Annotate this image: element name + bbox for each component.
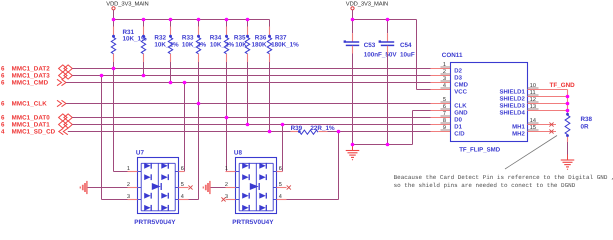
- resistor R36 180K pull-up: [245, 20, 267, 63]
- wire net MMC1_SD_CD: [68, 131, 291, 133]
- power symbol VDD_3V3_MAIN (left): [106, 1, 148, 20]
- svg-text:6: 6: [279, 166, 282, 172]
- junction dots on VDD bus (middle): [351, 18, 390, 22]
- svg-text:U7: U7: [136, 150, 145, 157]
- svg-text:SHIELD3: SHIELD3: [499, 102, 525, 109]
- wire SD_CD riser to U8 pin 4: [287, 132, 339, 200]
- ground symbol at caps: [346, 145, 360, 160]
- svg-text:D3: D3: [454, 74, 462, 81]
- CON11 left pin names: [454, 67, 468, 137]
- svg-text:10K_2%: 10K_2%: [182, 41, 207, 48]
- svg-text:1: 1: [225, 166, 228, 172]
- svg-text:5: 5: [181, 182, 184, 188]
- no-connect X at U7 pin 5: [188, 185, 192, 189]
- svg-text:1: 1: [127, 166, 130, 172]
- wire pull-up bus VDD_3V3_MAIN: [114, 19, 270, 21]
- wire DAT3 riser to U7 pin 3: [102, 76, 128, 200]
- svg-text:so the shield pins are needed: so the shield pins are needed to conect …: [394, 182, 576, 189]
- svg-text:SHIELD2: SHIELD2: [499, 95, 525, 102]
- wire net MMC1_CMD: [66, 82, 451, 84]
- wire R36 to net: [247, 62, 249, 125]
- wire CMD riser to U7 pin 6: [184, 83, 186, 172]
- wire R38 to ground: [567, 142, 569, 159]
- wire SHIELD pins to TF_GND: [528, 90, 568, 114]
- svg-text:180K_1%: 180K_1%: [271, 41, 299, 48]
- svg-text:GND: GND: [454, 109, 468, 116]
- ground at U8 pin 2: [203, 181, 225, 194]
- svg-text:VCC: VCC: [454, 88, 467, 95]
- svg-text:6: 6: [1, 80, 5, 87]
- svg-text:6: 6: [1, 122, 5, 129]
- svg-text:6: 6: [181, 166, 184, 172]
- node MMC1_CLK label and off-page symbol: [1, 100, 66, 107]
- svg-text:TF_GND: TF_GND: [550, 82, 576, 89]
- svg-text:D0: D0: [454, 116, 462, 123]
- wire DAT2 riser to U7 pin 1: [114, 69, 128, 172]
- svg-text:6: 6: [1, 115, 5, 122]
- svg-text:PRTR5V0U4Y: PRTR5V0U4Y: [134, 219, 176, 226]
- wire net MMC1_DAT3: [72, 75, 450, 77]
- svg-text:6: 6: [1, 66, 5, 73]
- CON11 right pin names SHIELD1-4 MH1-2: [499, 88, 525, 137]
- node MMC1_DAT1 label and off-page symbol: [1, 121, 72, 129]
- junction dots on pull-up bus: [112, 18, 250, 22]
- wire R35 to net: [226, 62, 228, 118]
- resistor R32 10K_2% pull-up: [141, 20, 179, 63]
- wire R33 to net: [170, 62, 172, 83]
- wire net MMC1_CLK: [66, 103, 451, 105]
- svg-text:10K_2%: 10K_2%: [210, 41, 235, 48]
- svg-text:MH2: MH2: [512, 130, 525, 137]
- svg-text:0R: 0R: [581, 124, 590, 131]
- connector CON11 TF_FLIP_SMD: [442, 52, 528, 153]
- svg-text:4: 4: [279, 194, 282, 200]
- wire VDD bus to CON11 VCC: [353, 20, 451, 90]
- svg-text:C53: C53: [364, 42, 376, 49]
- svg-text:6: 6: [1, 101, 5, 108]
- svg-text:CLK: CLK: [454, 102, 467, 109]
- U8 pin stubs and numbers: [225, 166, 287, 200]
- wire R34 to net: [198, 62, 200, 104]
- svg-text:PRTR5V0U4Y: PRTR5V0U4Y: [232, 219, 274, 226]
- wire R31 to net: [113, 62, 115, 69]
- svg-text:CMD: CMD: [454, 81, 468, 88]
- node MMC1_CMD label and off-page symbol: [1, 79, 66, 86]
- CON11 left pin numbers 1-9: [441, 62, 451, 131]
- ESD diode array U8 PRTR5V0U4Y: [232, 150, 276, 227]
- svg-text:4: 4: [1, 129, 5, 136]
- svg-text:MMC1_DAT1: MMC1_DAT1: [12, 122, 51, 129]
- svg-text:MMC1_DAT3: MMC1_DAT3: [12, 73, 51, 80]
- svg-text:6: 6: [1, 73, 5, 80]
- svg-text:5: 5: [279, 182, 282, 188]
- svg-text:R38: R38: [581, 116, 593, 123]
- wire R32 to net: [143, 62, 145, 76]
- svg-text:MMC1_SD_CD: MMC1_SD_CD: [12, 129, 56, 136]
- no-connect X at U8 pin 3: [221, 197, 225, 201]
- note text: [394, 174, 613, 189]
- ESD diode array U7 PRTR5V0U4Y: [134, 150, 178, 227]
- svg-text:CON11: CON11: [442, 52, 463, 59]
- svg-text:Beacause the Card Detect Pin i: Beacause the Card Detect Pin is referenc…: [394, 174, 613, 181]
- wire SD_CD after R39 to CON11 pin 9: [327, 131, 450, 133]
- svg-text:SHIELD4: SHIELD4: [499, 109, 525, 116]
- resistor R37 180K_1% pull-up: [267, 20, 299, 63]
- svg-text:D1: D1: [454, 123, 462, 130]
- svg-text:MH1: MH1: [512, 123, 525, 130]
- svg-text:3: 3: [127, 194, 130, 200]
- ground symbol TF_GND: [561, 155, 575, 170]
- resistor R31 10K_1% pull-up: [111, 20, 147, 63]
- wire DAT0 riser to U8 pin 1: [226, 118, 228, 172]
- resistor R39 22R_1% series in MMC1_SD_CD: [291, 125, 335, 134]
- no-connect X at U8 pin 5: [287, 185, 291, 189]
- svg-text:10K_2%: 10K_2%: [154, 41, 179, 48]
- junction dots on signal nets: [100, 67, 341, 134]
- resistor R38 0R: [565, 113, 592, 142]
- svg-text:4: 4: [181, 194, 184, 200]
- resistor R34 10K_2% pull-up: [196, 20, 234, 63]
- junction dots on TF_GND: [566, 95, 570, 113]
- MH1 MH2 stubs with no-connect X: [528, 122, 557, 133]
- wire net MMC1_DAT2: [72, 68, 450, 70]
- resistor R35 10K pull-up: [224, 20, 247, 63]
- CON11 right pin numbers 10-15: [528, 83, 539, 131]
- note leader line: [505, 136, 557, 170]
- U7 pin stubs and numbers: [127, 166, 189, 200]
- capacitor C53 100nF_50V: [344, 20, 398, 59]
- ground at U7 pin 2: [80, 181, 127, 194]
- junction dots on ground rail: [351, 143, 390, 147]
- svg-text:C/D: C/D: [454, 130, 465, 137]
- wire CLK riser to U7 pin 4: [189, 104, 199, 200]
- wire R37 to net: [269, 62, 271, 132]
- wire cap grounds rail: [353, 54, 451, 145]
- svg-text:100nF_50V: 100nF_50V: [364, 52, 398, 59]
- resistor R33 10K_2% pull-up: [168, 20, 206, 63]
- svg-text:MMC1_CLK: MMC1_CLK: [12, 101, 48, 108]
- capacitor C54 10uF: [379, 20, 415, 59]
- node MMC1_DAT2 label and off-page symbol: [1, 65, 72, 73]
- svg-text:10uF: 10uF: [400, 52, 415, 59]
- svg-text:TF_FLIP_SMD: TF_FLIP_SMD: [459, 147, 501, 154]
- wire net MMC1_DAT1: [72, 124, 450, 126]
- node TF_GND label: [550, 82, 576, 89]
- svg-text:R39: R39: [291, 125, 303, 132]
- node MMC1_DAT0 label and off-page symbol: [1, 114, 72, 122]
- svg-text:U8: U8: [234, 150, 243, 157]
- node MMC1_SD_CD label and off-page symbol: [1, 128, 68, 135]
- wire DAT1 riser to U8 pin 6: [282, 125, 284, 172]
- wire net MMC1_DAT0: [72, 117, 450, 119]
- power symbol VDD_3V3_MAIN (middle): [346, 1, 388, 20]
- node MMC1_DAT3 label and off-page symbol: [1, 72, 72, 80]
- svg-text:180K: 180K: [252, 41, 268, 48]
- svg-text:MMC1_DAT0: MMC1_DAT0: [12, 115, 51, 122]
- svg-text:D2: D2: [454, 67, 462, 74]
- svg-text:MMC1_DAT2: MMC1_DAT2: [12, 66, 51, 73]
- svg-text:MMC1_CMD: MMC1_CMD: [12, 80, 49, 87]
- svg-text:C54: C54: [400, 42, 412, 49]
- svg-text:SHIELD1: SHIELD1: [499, 88, 525, 95]
